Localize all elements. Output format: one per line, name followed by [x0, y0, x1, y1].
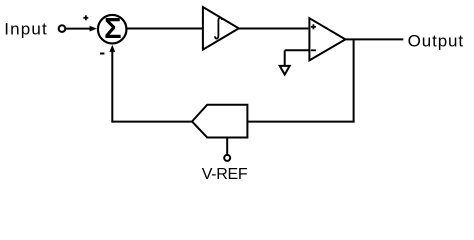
svg-text:Output: Output — [408, 31, 464, 50]
wire integrator to comparator — [239, 28, 309, 30]
svg-text:V-REF: V-REF — [202, 166, 248, 183]
wire op-amp minus input stub — [285, 49, 310, 51]
summing junction circle — [98, 15, 127, 44]
plus sign at summer input — [83, 15, 88, 20]
wire input to summing junction — [66, 28, 91, 30]
feedback wire horizontal right — [247, 121, 354, 123]
output wire — [345, 38, 403, 40]
feedback wire horizontal left — [112, 121, 192, 123]
minus sign at summer lower input — [100, 53, 104, 55]
input terminal (open circle) — [59, 25, 66, 32]
integral symbol — [215, 18, 222, 39]
wire summer to integrator — [127, 28, 203, 30]
DAC U3 (1-bit DAC pentagon) — [192, 105, 247, 138]
svg-text:Σ: Σ — [104, 13, 121, 45]
arrowhead into summer (left) — [90, 26, 97, 32]
integrator U1 triangle — [203, 7, 239, 50]
feedback wire vertical left — [111, 51, 113, 123]
comparator op-amp U2 triangle — [309, 18, 345, 60]
op-amp plus input marker — [311, 24, 316, 29]
ground symbol — [280, 66, 290, 75]
feedback wire vertical right — [353, 39, 355, 122]
op-amp minus input marker — [311, 49, 316, 51]
V-REF terminal (open circle) — [224, 155, 230, 161]
svg-text:Input: Input — [4, 20, 48, 39]
wire DAC to V-REF terminal — [226, 138, 228, 155]
wire down to ground — [284, 50, 286, 66]
arrowhead into summer (bottom) — [109, 45, 115, 52]
